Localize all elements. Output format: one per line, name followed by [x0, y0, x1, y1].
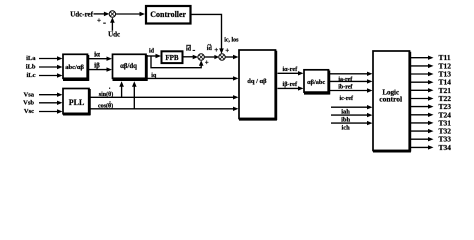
- svg-text:αβ/dq: αβ/dq: [120, 63, 137, 70]
- node iq label: [151, 73, 157, 79]
- node iLc label: [26, 72, 35, 79]
- wire T23: [411, 104, 434, 108]
- wire iq: [148, 76, 239, 80]
- wire sin(theta): [91, 95, 239, 99]
- block PLL: [63, 89, 90, 116]
- wire controller to ic,los vertical: [191, 14, 224, 54]
- svg-text:iα: iα: [94, 51, 100, 59]
- summing junction U_dc (circle with X): [109, 11, 115, 17]
- node T24 label: [439, 110, 452, 119]
- wire T12: [411, 64, 434, 68]
- wire T13: [411, 72, 434, 76]
- plus sign at Udc summer: [97, 17, 101, 25]
- node iLa label: [26, 55, 36, 62]
- svg-text:Vsc: Vsc: [24, 108, 34, 115]
- node T21 label: [439, 86, 452, 95]
- wire T31: [411, 121, 434, 125]
- svg-text:Udc: Udc: [108, 31, 120, 39]
- svg-text:αβ/abc: αβ/abc: [307, 79, 325, 86]
- wire ich: [331, 121, 373, 125]
- svg-text:abc/αβ: abc/αβ: [65, 64, 84, 71]
- minus sign at Udc summer: [103, 23, 106, 24]
- node ich label: [341, 125, 350, 132]
- node id label: [149, 48, 155, 54]
- node T12 label: [439, 61, 452, 70]
- node id-bar label with minus: [186, 45, 195, 53]
- plus sign below J1: [205, 59, 209, 67]
- wire T24: [411, 113, 434, 117]
- svg-text:+: +: [225, 47, 229, 55]
- wire ibeta: [89, 67, 112, 71]
- node iah label: [341, 109, 350, 116]
- wire T34: [411, 145, 434, 149]
- summing junction J2: [219, 54, 225, 60]
- block Logic control: [373, 51, 411, 152]
- controller U1: [146, 6, 191, 24]
- node iLb label: [26, 64, 36, 71]
- wire T32: [411, 129, 434, 133]
- node cos(theta) label: [98, 101, 113, 109]
- block alphabeta/dq: [113, 54, 148, 81]
- node Udc label: [108, 31, 120, 39]
- node T13 label: [439, 70, 452, 79]
- node T22 label: [439, 94, 452, 103]
- wire T22: [411, 96, 434, 100]
- wire J1 to J2: [204, 55, 219, 59]
- wire FPB to J1: [183, 55, 198, 59]
- wire ib-ref: [330, 79, 373, 83]
- node Vsb label: [23, 100, 34, 107]
- wire ic-ref: [330, 88, 373, 92]
- node ib-ref label: [338, 84, 353, 90]
- svg-text:ic-ref: ic-ref: [340, 96, 355, 102]
- svg-text:Vsb: Vsb: [23, 100, 34, 107]
- wire Vsa: [39, 93, 63, 97]
- svg-text:Vsa: Vsa: [24, 91, 35, 98]
- svg-text:FPB: FPB: [165, 54, 179, 62]
- wire iLa: [39, 56, 63, 60]
- svg-text:ic, los: ic, los: [224, 37, 239, 43]
- wire cos(theta): [91, 107, 239, 111]
- wire Udc feedback up arrow: [110, 17, 115, 31]
- node Udc-ref label: [70, 10, 93, 18]
- node id-tilde label with plus: [207, 42, 218, 54]
- wire Udc-ref to summer: [94, 12, 110, 17]
- wire ialpha: [89, 57, 112, 61]
- wire Vsc: [39, 109, 63, 113]
- wire Vsb: [39, 101, 63, 105]
- node T33 label: [439, 135, 452, 144]
- summing junction J1: [198, 54, 204, 60]
- node ialpha label: [94, 51, 100, 59]
- wire iah: [331, 105, 373, 109]
- plus sign right of J2: [225, 47, 229, 55]
- svg-text:+: +: [205, 59, 209, 67]
- node ia-ref label: [338, 77, 353, 83]
- svg-text:PLL: PLL: [69, 98, 85, 107]
- svg-text:iα-ref: iα-ref: [282, 66, 298, 73]
- node T34 label: [439, 143, 452, 152]
- svg-text:Controller: Controller: [150, 10, 186, 19]
- wire id feedback branch down-right-up into J1: [151, 56, 204, 68]
- wire T11: [411, 56, 434, 60]
- svg-text:dq / αβ: dq / αβ: [247, 78, 267, 85]
- node ic,los label: [224, 37, 239, 43]
- node T32 label: [439, 127, 452, 136]
- node Vsc label: [24, 108, 34, 115]
- wire ia-ref: [330, 72, 373, 76]
- svg-text:ia-ref: ia-ref: [338, 77, 353, 83]
- svg-text:iLc: iLc: [26, 72, 35, 79]
- svg-text:id: id: [149, 48, 155, 54]
- svg-text:ib-ref: ib-ref: [338, 84, 353, 90]
- wire T21: [411, 88, 434, 92]
- wire J2 to dq/ab box: [225, 55, 239, 59]
- wire iLb: [39, 65, 63, 69]
- node T31 label: [439, 118, 452, 127]
- node T23 label: [439, 102, 452, 111]
- node Vsa label: [24, 91, 35, 98]
- block FPB (low-pass filter): [162, 51, 183, 63]
- node ialpha-ref label: [282, 66, 298, 73]
- node ibeta-ref label: [283, 81, 298, 88]
- svg-text:iLa: iLa: [26, 55, 36, 62]
- wire T33: [411, 137, 434, 141]
- node T14 label: [439, 78, 452, 87]
- node ic-ref label: [340, 96, 355, 102]
- node T11 label: [439, 53, 451, 62]
- block dq/alphabeta: [239, 50, 277, 120]
- wire id to FPB: [148, 54, 162, 58]
- svg-text:T34: T34: [439, 143, 452, 152]
- svg-text:+: +: [97, 17, 101, 25]
- node sin(theta) label: [99, 88, 113, 98]
- wire summer to controller: [115, 12, 145, 17]
- wire iLc: [39, 73, 63, 77]
- block alphabeta/abc: [304, 70, 330, 95]
- svg-text:iLb: iLb: [26, 64, 36, 71]
- wire cos vertical arrow into ab/dq: [132, 81, 137, 109]
- wire ibeta-ref: [278, 86, 304, 90]
- svg-text:id: id: [186, 46, 192, 52]
- svg-text:Udc-ref: Udc-ref: [70, 10, 93, 18]
- svg-text:control: control: [379, 94, 402, 103]
- node ibeta label: [94, 62, 100, 70]
- wire T14: [411, 80, 434, 84]
- svg-text:iβ: iβ: [94, 62, 100, 70]
- wire sin vertical arrow into ab/dq: [119, 81, 124, 97]
- svg-text:+: +: [214, 46, 218, 54]
- svg-text:iβ-ref: iβ-ref: [283, 81, 298, 88]
- wire ialpha-ref: [278, 71, 304, 75]
- wire ibh: [331, 113, 373, 117]
- block abc/alphabeta: [63, 54, 89, 81]
- node ibh label: [341, 117, 350, 124]
- svg-text:ich: ich: [341, 125, 350, 132]
